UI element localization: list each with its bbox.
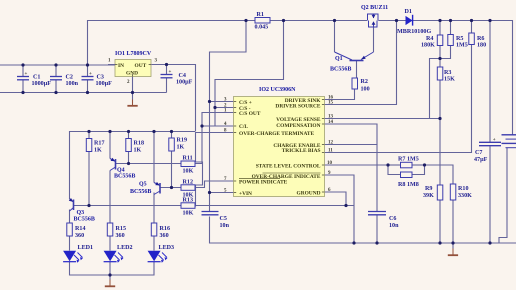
svg-text:R11: R11	[183, 156, 193, 162]
svg-text:C3: C3	[97, 75, 104, 81]
wire Q4 base to R11	[116, 163, 182, 165]
resistor R19	[169, 138, 187, 152]
resistor R15	[107, 223, 126, 239]
ground right rail	[448, 249, 458, 256]
svg-text:12: 12	[328, 141, 334, 146]
svg-text:GROUND: GROUND	[297, 191, 321, 197]
wire C5 bottom to ground rail	[210, 217, 516, 244]
wire pin9 to ground rail	[325, 175, 355, 243]
wire R3 bottom to R9	[439, 80, 441, 185]
svg-text:R8 1M8: R8 1M8	[398, 182, 419, 188]
resistor R16	[151, 223, 170, 239]
svg-text:R6: R6	[477, 36, 484, 42]
wire R14 to LED1	[69, 236, 71, 251]
ground IO1	[127, 100, 137, 106]
wire bus B C/S- to C/L	[214, 108, 216, 127]
wire R19 bottom	[171, 152, 173, 188]
capacitor C6	[368, 212, 399, 230]
wire C7 top	[489, 21, 491, 143]
svg-text:11: 11	[328, 149, 333, 154]
wire R7 left stub	[388, 164, 401, 166]
capacitor C5	[202, 212, 230, 230]
capacitor C1	[17, 72, 51, 87]
wire ground right stub	[452, 243, 454, 249]
svg-text:1000µF: 1000µF	[32, 81, 52, 87]
svg-text:C5: C5	[220, 216, 227, 222]
wire Q4 collector to R15	[109, 171, 111, 224]
wire C-input bottom rail	[0, 92, 167, 94]
wire Q4 emitter	[109, 132, 111, 159]
wire LED2 bottom	[109, 262, 111, 276]
wire R7R8 right to R10	[425, 165, 454, 184]
wire top input rail	[88, 21, 256, 66]
capacitor C2	[50, 75, 79, 88]
svg-text:R16: R16	[160, 226, 171, 232]
svg-text:COMPENSATION: COMPENSATION	[276, 123, 320, 129]
wire R7 right stub	[412, 164, 425, 166]
resistor R18	[126, 139, 144, 154]
svg-text:LED1: LED1	[78, 245, 94, 251]
svg-text:BC556B: BC556B	[74, 217, 95, 223]
transistor Q1 BC556B	[335, 52, 374, 61]
resistor R5	[448, 35, 468, 49]
wire pin13 to R3 bottom node	[325, 118, 441, 120]
capacitor C3	[82, 72, 113, 87]
IC IO2 UC3906N	[224, 87, 334, 197]
resistor R6	[469, 33, 486, 49]
svg-text:STATE LEVEL CONTROL: STATE LEVEL CONTROL	[256, 164, 321, 170]
wire R17 top	[88, 132, 90, 139]
wire pin4 C/L line	[202, 125, 234, 127]
wire R18 top	[128, 132, 130, 139]
svg-text:Q5: Q5	[139, 182, 147, 188]
svg-text:OVER-CHARGE INDICATE: OVER-CHARGE INDICATE	[252, 174, 321, 180]
regulator IO1 L7809CV	[108, 51, 158, 85]
svg-text:360: 360	[160, 233, 169, 239]
LED3	[148, 245, 174, 263]
svg-text:14: 14	[328, 120, 334, 125]
svg-text:10: 10	[327, 161, 333, 166]
svg-text:0.045: 0.045	[255, 24, 269, 30]
resistor R14	[67, 223, 86, 239]
svg-text:GND: GND	[126, 71, 138, 77]
svg-text:10K: 10K	[183, 211, 194, 217]
svg-text:C/L: C/L	[239, 124, 248, 130]
wire Q5 collector to R16	[153, 193, 155, 224]
svg-text:100n: 100n	[66, 81, 79, 87]
wire rail R1 to Q2	[270, 20, 367, 22]
ground LED rail	[105, 280, 115, 287]
svg-text:10n: 10n	[389, 223, 399, 229]
svg-text:R15: R15	[116, 226, 127, 232]
svg-text:360: 360	[116, 233, 125, 239]
svg-text:OUT: OUT	[135, 63, 147, 69]
transistor Q4 BC556B	[110, 158, 116, 171]
wire pin15 to top rail	[325, 21, 397, 105]
svg-text:BC556B: BC556B	[330, 67, 351, 73]
svg-text:BC556B: BC556B	[114, 174, 135, 180]
svg-text:1K: 1K	[177, 145, 185, 151]
svg-text:R2: R2	[361, 79, 368, 85]
svg-text:R1: R1	[257, 12, 264, 18]
svg-text:Q1: Q1	[335, 56, 343, 62]
resistor R13	[181, 198, 195, 217]
svg-text:D1: D1	[405, 9, 412, 15]
wire Q3 base long ground wire	[74, 205, 182, 207]
svg-text:15K: 15K	[444, 77, 455, 83]
resistor R12	[181, 180, 195, 199]
svg-text:TRICKLE BIAS: TRICKLE BIAS	[282, 148, 321, 154]
wire C3 stubs	[87, 65, 89, 76]
LED2	[104, 245, 133, 263]
svg-text:IO1 L7809CV: IO1 L7809CV	[115, 51, 152, 57]
wire pin3 stub	[210, 101, 234, 103]
wire C6 branch	[376, 145, 378, 212]
wire C-input top rail	[0, 64, 115, 66]
wire Q1 emitter Q2 gate	[373, 28, 375, 53]
diode D1 MBR10100G	[397, 9, 431, 35]
svg-text:+: +	[89, 72, 92, 77]
wire Q3 collector to R14	[69, 210, 71, 224]
wire C/S+ sense from R1 left	[210, 21, 247, 102]
wire R13 right to ground tee	[195, 205, 354, 207]
resistor R1	[255, 12, 271, 30]
wire R17 bottom	[88, 152, 90, 206]
wire R9 bottom	[439, 200, 441, 243]
wire pin7 to R12	[195, 181, 234, 188]
wire pin8 to R13 zigzag	[195, 133, 234, 207]
svg-text:1K: 1K	[134, 148, 142, 154]
svg-text:180: 180	[477, 43, 486, 49]
svg-text:Q3: Q3	[77, 210, 85, 216]
svg-text:LED3: LED3	[159, 245, 175, 251]
wire D1 to battery corner	[413, 21, 513, 135]
svg-text:C6: C6	[389, 216, 396, 222]
wire R6 top	[471, 21, 473, 34]
wire R8 loop left	[388, 165, 401, 175]
wire battery bottom	[499, 148, 507, 243]
svg-text:BC556B: BC556B	[130, 189, 151, 195]
svg-text:C7: C7	[475, 150, 482, 156]
svg-text:R9: R9	[425, 186, 432, 192]
svg-text:R17: R17	[94, 141, 105, 147]
resistor R2	[352, 78, 370, 93]
svg-text:R12: R12	[183, 180, 194, 186]
LED1	[63, 245, 93, 263]
wire Q2 to D1	[379, 20, 407, 22]
svg-text:R13: R13	[183, 198, 194, 204]
wire pin11 to R6	[325, 45, 472, 153]
wire Q1 collector	[334, 21, 336, 53]
svg-text:R5: R5	[456, 36, 463, 42]
svg-text:R10: R10	[458, 186, 469, 192]
wire C/S- sense from R1 right	[215, 21, 284, 108]
svg-text:C4: C4	[179, 73, 186, 79]
svg-text:180K: 180K	[421, 43, 435, 49]
transistor Q3 BC556B	[69, 198, 74, 211]
svg-text:100µF: 100µF	[176, 80, 193, 86]
svg-text:IO2 UC3906N: IO2 UC3906N	[259, 87, 296, 93]
svg-text:100: 100	[361, 87, 370, 93]
svg-text:330K: 330K	[458, 193, 472, 199]
wire C6 bottom	[376, 215, 378, 244]
wire R3 stubs	[439, 59, 441, 68]
capacitor C4	[161, 70, 193, 86]
wire IO1 OUT 9V rail	[151, 65, 196, 132]
svg-text:10n: 10n	[220, 223, 230, 229]
wire Q5 emitter	[153, 132, 155, 183]
transistor Q2 BUZ11	[368, 14, 379, 27]
resistor R8	[398, 172, 419, 188]
svg-text:1K: 1K	[94, 148, 102, 154]
svg-text:15: 15	[328, 101, 334, 106]
svg-text:R7 1M5: R7 1M5	[398, 157, 419, 163]
wire C4 bottom	[166, 78, 168, 93]
resistor R9	[423, 185, 443, 200]
svg-text:+: +	[493, 138, 496, 143]
wire LED ground stub	[109, 275, 111, 280]
wire Q5 base to R12	[160, 187, 181, 189]
svg-text:OVER-CHARGE TERMINATE: OVER-CHARGE TERMINATE	[239, 131, 315, 137]
wire pin6 to ground net	[325, 192, 347, 206]
svg-text:+VIN: +VIN	[239, 191, 252, 197]
svg-text:POWER INDICATE: POWER INDICATE	[239, 180, 288, 186]
wire pin5 stub	[210, 192, 234, 194]
wire C5 top stub	[209, 209, 211, 212]
wire pin14 to pin12 link	[325, 124, 378, 145]
wire pin10 to R7 R8 left	[325, 164, 401, 166]
wire C4 top	[166, 65, 168, 75]
svg-text:IN: IN	[118, 63, 124, 69]
resistor R4	[421, 35, 443, 49]
wire R19 top	[171, 132, 173, 139]
svg-text:R3: R3	[444, 70, 451, 76]
wire node X arms	[430, 46, 451, 119]
resistor R3	[437, 67, 455, 83]
capacitor C7	[474, 138, 501, 163]
wire C2 stubs	[55, 65, 57, 76]
wire R18 bottom	[128, 152, 130, 164]
resistor R11	[181, 156, 195, 175]
svg-text:DRIVER SOURCE: DRIVER SOURCE	[275, 104, 320, 110]
svg-text:R14: R14	[75, 226, 86, 232]
svg-text:360: 360	[75, 233, 84, 239]
svg-text:R4: R4	[426, 36, 433, 42]
wire pin2 stub	[215, 107, 234, 109]
wire R10 bottom	[452, 200, 454, 243]
svg-text:+: +	[169, 70, 172, 75]
svg-text:R19: R19	[177, 138, 188, 144]
wire Q1 base to R2	[356, 61, 358, 79]
resistor R17	[86, 139, 104, 154]
svg-text:47µF: 47µF	[474, 157, 488, 163]
wire R15 to LED2	[109, 236, 111, 251]
battery G1	[502, 135, 516, 148]
svg-text:13: 13	[328, 115, 334, 120]
wire C1 stubs	[22, 65, 24, 76]
svg-text:100µF: 100µF	[96, 81, 113, 87]
transistor Q5 BC556B	[154, 182, 160, 195]
svg-text:+: +	[25, 72, 28, 77]
resistor R7	[398, 157, 419, 168]
wire R16 to LED3	[153, 236, 155, 251]
svg-text:1M5: 1M5	[456, 43, 468, 49]
wire R4 bottom to node X	[439, 46, 441, 59]
resistor R10	[450, 184, 472, 200]
wire LED bottom rail	[70, 262, 155, 276]
svg-text:LED2: LED2	[117, 245, 133, 251]
svg-text:MBR10100G: MBR10100G	[397, 29, 431, 35]
wire IO1 GND stub	[132, 77, 134, 104]
wire R4 top	[439, 21, 441, 36]
wire C7 bottom	[489, 146, 491, 243]
svg-text:Q2 BUZ11: Q2 BUZ11	[361, 5, 388, 11]
wire R5 top	[450, 21, 452, 35]
wire bus A C/S+ to VIN	[209, 102, 211, 209]
svg-text:39K: 39K	[423, 193, 434, 199]
svg-text:R18: R18	[134, 141, 145, 147]
svg-text:C/S OUT: C/S OUT	[239, 111, 261, 117]
wire 9V LED rail	[70, 132, 196, 200]
svg-text:C1: C1	[33, 75, 40, 81]
wire pin16 to R2	[325, 89, 355, 100]
wire R8 loop right	[412, 165, 425, 175]
wire pin1 C/S OUT to R11	[195, 113, 234, 164]
svg-text:C2: C2	[66, 75, 73, 81]
svg-text:10K: 10K	[183, 169, 194, 175]
